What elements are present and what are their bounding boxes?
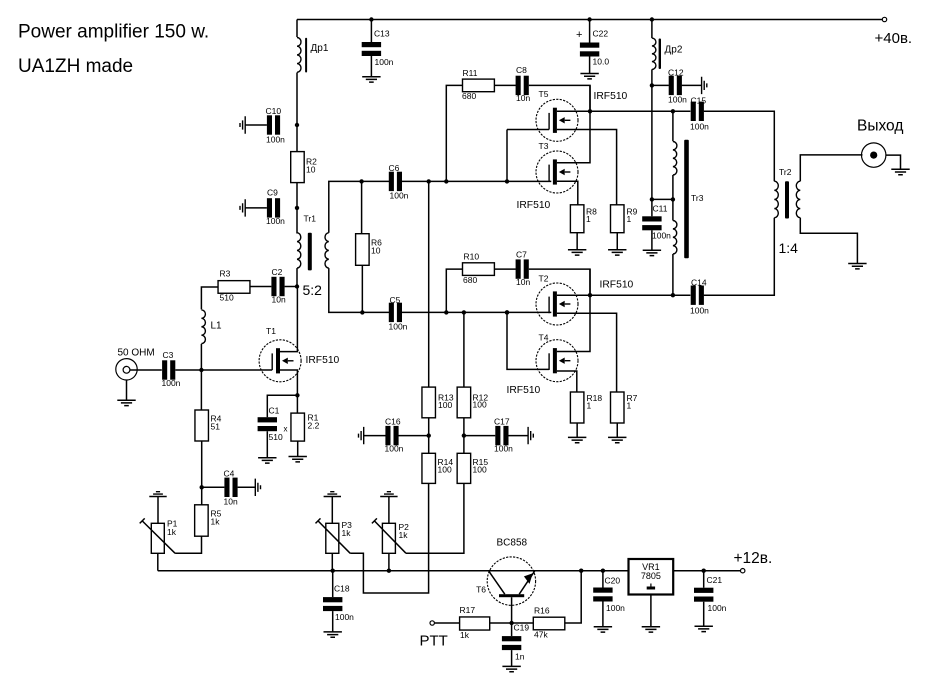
resistor R1: [296, 395, 298, 413]
svg-text:100n: 100n: [385, 443, 404, 453]
resistor R10: [463, 263, 495, 276]
node R13 top junction: [427, 179, 431, 183]
wire R17 to base node: [490, 622, 512, 624]
wire T4 drain lead: [557, 269, 590, 351]
node Tr3 top junction: [671, 109, 675, 113]
inductor Др1: [297, 38, 301, 73]
capacitor C13: [370, 20, 372, 43]
svg-text:IRF510: IRF510: [600, 280, 634, 291]
node C21 junction: [702, 569, 706, 573]
wire C19 to ground: [511, 650, 513, 666]
wire Tr3 winding bottom: [672, 254, 674, 295]
svg-text:R11: R11: [463, 68, 478, 78]
wire R2 to C9 node: [296, 183, 298, 208]
wire R13 to C16 node: [428, 418, 430, 454]
wire ground to P1: [157, 497, 159, 524]
wire left main vertical top (rail to Dr1): [296, 20, 298, 38]
svg-text:+40в.: +40в.: [875, 30, 913, 47]
wire T2 source to R7: [557, 313, 617, 392]
wire C15 to Tr2: [704, 111, 775, 181]
svg-text:R3: R3: [220, 269, 231, 279]
inductor L1: [201, 310, 205, 344]
ground at C17 (side): [528, 427, 533, 444]
resistor R17: [460, 617, 490, 630]
node R12 junction: [462, 310, 466, 314]
transformer Tr2 core: [785, 181, 789, 218]
transformer Tr2 primary winding: [774, 181, 778, 218]
node +40V rail terminal circle: [882, 17, 886, 21]
wire R12 to C17 node: [463, 418, 465, 454]
wire T5 gate riser: [506, 130, 508, 182]
svg-text:R16: R16: [534, 606, 550, 616]
capacitor C8: [494, 84, 516, 86]
resistor R2: [291, 152, 305, 183]
ground above P1: [149, 492, 166, 497]
ground at R8: [568, 250, 586, 255]
wire T2 drain lead: [557, 294, 590, 296]
node P2 bus junction: [387, 569, 391, 573]
ground at C9 (side): [240, 199, 245, 216]
node R10 feed junction: [444, 310, 448, 314]
node C18 junction: [331, 569, 335, 573]
capacitor C3: [162, 360, 167, 379]
svg-text:T5: T5: [539, 89, 549, 99]
inductor Др2: [652, 38, 656, 69]
node T4 gate junction: [505, 310, 509, 314]
wire R8 to ground: [576, 233, 578, 250]
wire C10 node to R2: [296, 125, 298, 152]
svg-text:10n: 10n: [516, 277, 530, 287]
regulator VR1: [629, 559, 674, 595]
wire C8 to drain node: [529, 85, 590, 111]
capacitor C10: [245, 124, 267, 126]
svg-text:C8: C8: [516, 65, 527, 75]
svg-text:C22: C22: [593, 29, 609, 39]
transistor T1: [259, 340, 301, 382]
wire R12 top to C5 line: [463, 312, 465, 387]
resistor R8: [570, 205, 584, 233]
svg-text:100n: 100n: [668, 94, 687, 104]
node T1 source junction: [295, 393, 299, 397]
svg-text:T6: T6: [476, 585, 486, 595]
wire PTT to R17: [435, 622, 460, 624]
svg-text:C5: C5: [390, 295, 401, 305]
svg-text:Др1: Др1: [311, 43, 329, 54]
node C17 junction: [462, 433, 466, 437]
svg-text:100n: 100n: [335, 612, 354, 622]
connector output: [862, 143, 886, 167]
node C22 junction: [587, 17, 591, 21]
node C9 junction: [295, 206, 299, 210]
wire input node to T1 gate: [201, 369, 272, 371]
transistor T5: [536, 99, 578, 141]
svg-text:100n: 100n: [606, 603, 625, 613]
wire input connector ground lead: [126, 380, 128, 400]
svg-text:C1: C1: [269, 406, 280, 416]
wire R1 to ground: [297, 441, 299, 456]
ground at R18: [568, 437, 586, 442]
wire bottom bias bus: [158, 570, 742, 572]
capacitor C11: [651, 199, 653, 216]
svg-text:R10: R10: [464, 252, 480, 262]
wire Tr2 secondary top to output: [800, 155, 862, 181]
ground at C4 (side): [255, 479, 260, 496]
wire C11 to ground: [651, 230, 653, 250]
wire +40V top rail: [297, 19, 884, 21]
ground at C18: [324, 632, 342, 637]
svg-text:Tr1: Tr1: [304, 213, 317, 223]
node T6 base junction: [509, 621, 513, 625]
resistor R16: [533, 617, 565, 630]
ground at C20: [594, 627, 612, 632]
svg-text:1k: 1k: [399, 530, 409, 540]
svg-text:C2: C2: [272, 267, 283, 277]
wire T4 source to R18: [557, 371, 577, 392]
resistor R14: [422, 453, 436, 483]
node Tr3 mid junction: [671, 197, 675, 201]
svg-text:10: 10: [306, 164, 316, 174]
transformer Tr1 primary winding: [297, 233, 301, 268]
node C11 left junction: [650, 197, 654, 201]
wire Dr2 to C11 node: [651, 69, 653, 199]
svg-text:C18: C18: [334, 583, 350, 593]
svg-text:100: 100: [473, 400, 487, 410]
transformer Tr3 winding upper: [673, 142, 677, 176]
ground at VR1: [642, 627, 660, 632]
node C10 junction: [295, 123, 299, 127]
node C16 junction: [427, 433, 431, 437]
wire L1 to input node: [200, 344, 202, 370]
svg-text:Power amplifier 150 w.: Power amplifier 150 w.: [18, 22, 209, 43]
svg-text:680: 680: [462, 91, 476, 101]
capacitor C1: [258, 417, 277, 422]
resistor R6: [361, 181, 363, 233]
svg-text:PTT: PTT: [420, 633, 448, 650]
svg-text:100n: 100n: [494, 443, 513, 453]
transformer Tr3 core: [684, 140, 689, 259]
wire ground to P2: [388, 497, 390, 524]
capacitor C14: [691, 286, 696, 305]
wire R13 top to C6 line: [428, 181, 430, 387]
wire C5 to T2 gate: [402, 311, 552, 313]
svg-text:IRF510: IRF510: [594, 91, 628, 102]
svg-text:100n: 100n: [390, 191, 409, 201]
svg-text:+12в.: +12в.: [734, 550, 773, 567]
svg-text:T4: T4: [539, 333, 549, 343]
node R6 top junction: [359, 179, 363, 183]
wire C1 to ground: [266, 431, 268, 458]
svg-text:10n: 10n: [272, 294, 286, 304]
wire C3 to input node: [175, 369, 201, 371]
capacitor C21: [703, 571, 705, 588]
resistor R12: [457, 387, 471, 418]
node C2 junction: [295, 284, 299, 288]
ground at Tr2 secondary: [848, 264, 866, 269]
svg-text:1:4: 1:4: [779, 240, 799, 256]
svg-text:C4: C4: [224, 469, 235, 479]
wire Dr1 to C10 node: [296, 73, 298, 126]
wire R4 to C4 node: [201, 441, 203, 487]
transistor T6: [487, 557, 535, 605]
svg-text:2.2: 2.2: [308, 420, 320, 430]
wire Tr3 winding middle: [672, 175, 674, 221]
capacitor C4: [202, 486, 225, 488]
svg-text:C9: C9: [267, 187, 278, 197]
svg-text:C12: C12: [668, 68, 684, 78]
capacitor C17: [464, 435, 495, 437]
transformer Tr1 secondary winding: [325, 233, 329, 268]
svg-text:C13: C13: [374, 29, 390, 39]
wire Tr1 secondary bottom to C5 line: [329, 268, 389, 312]
wire R5 to P1 wiper: [175, 536, 201, 553]
wire C11 node link: [652, 198, 673, 200]
wire P3 to bus: [331, 553, 333, 570]
svg-text:BC858: BC858: [497, 538, 528, 549]
resistor R11: [463, 79, 495, 92]
wire P2 wiper to R15: [406, 483, 464, 553]
transformer Tr1 core: [308, 233, 312, 271]
ground at input connector: [117, 400, 135, 405]
capacitor C18: [332, 571, 334, 597]
svg-text:C11: C11: [653, 204, 668, 214]
svg-text:L1: L1: [211, 320, 223, 331]
svg-text:100n: 100n: [162, 378, 181, 388]
node T5 gate riser junction: [505, 179, 509, 183]
ground at R1: [289, 457, 307, 462]
wire R3 to L1: [201, 287, 218, 309]
resistor R7: [611, 392, 625, 423]
wire R7 to ground: [616, 423, 618, 437]
capacitor C6: [389, 172, 394, 191]
wire lower drain line: [590, 294, 690, 296]
ground at C19: [502, 666, 520, 671]
svg-text:Др2: Др2: [665, 45, 683, 56]
svg-text:T1: T1: [266, 326, 276, 336]
svg-text:IRF510: IRF510: [507, 385, 541, 396]
svg-text:C15: C15: [691, 96, 707, 106]
wire C7 to lower drain node: [529, 269, 590, 295]
capacitor C2: [250, 286, 271, 288]
capacitor C19: [511, 623, 513, 636]
svg-text:IRF510: IRF510: [306, 355, 340, 366]
capacitor C5: [389, 303, 394, 322]
wire R16 to bus: [565, 571, 581, 623]
wire R6 to C5 line: [361, 265, 363, 312]
svg-text:1k: 1k: [211, 517, 221, 527]
wire source node to C1: [267, 395, 297, 417]
ground at C21: [695, 626, 713, 631]
wire R9 to ground: [616, 233, 618, 250]
svg-text:Выход: Выход: [857, 117, 903, 134]
svg-text:100n: 100n: [708, 603, 727, 613]
wire P2 to bus: [388, 553, 390, 570]
ground above P2: [380, 492, 397, 497]
wire T5 drain lead: [557, 110, 590, 112]
capacitor C16: [364, 435, 386, 437]
ground above P3: [324, 492, 341, 497]
svg-text:47k: 47k: [534, 629, 548, 639]
wire rail to Dr2: [651, 20, 653, 39]
svg-text:100n: 100n: [652, 230, 671, 240]
svg-text:R17: R17: [460, 605, 476, 615]
svg-text:100: 100: [438, 400, 452, 410]
capacitor C9: [245, 207, 267, 209]
node Tr3 bottom junction: [671, 293, 675, 297]
transistor T2: [536, 283, 578, 325]
wire ground to P3: [331, 497, 333, 524]
wire R18 to ground: [576, 423, 578, 437]
svg-text:100n: 100n: [690, 121, 709, 131]
svg-text:7805: 7805: [641, 571, 661, 581]
svg-text:50 OHM: 50 OHM: [118, 348, 155, 359]
node R16 bus junction: [579, 569, 583, 573]
svg-text:+: +: [576, 29, 582, 41]
wire C22 to ground: [589, 57, 591, 74]
wire P3 wiper to R14: [350, 483, 428, 593]
ground at C1: [258, 458, 276, 463]
wire base node to R16: [512, 622, 534, 624]
wire Tr1 secondary top to C6 line: [329, 181, 389, 232]
svg-text:IRF510: IRF510: [517, 200, 551, 211]
svg-text:Tr3: Tr3: [691, 193, 704, 203]
svg-text:C6: C6: [389, 163, 400, 173]
svg-text:100n: 100n: [266, 134, 285, 144]
node R6 bottom junction: [360, 310, 364, 314]
svg-text:C21: C21: [707, 575, 723, 585]
capacitor C22: [589, 20, 591, 43]
wire output connector to ground: [886, 155, 901, 169]
capacitor C20: [602, 571, 604, 588]
svg-text:5:2: 5:2: [303, 282, 323, 298]
wire C13 to ground: [370, 56, 372, 77]
wire T1 source lead: [276, 370, 297, 395]
wire C14 to Tr2: [704, 218, 775, 296]
svg-text:C10: C10: [266, 106, 282, 116]
wire Tr3 winding top: [672, 111, 674, 141]
wire T5 gate lead: [507, 129, 549, 131]
svg-text:C16: C16: [385, 416, 401, 426]
wire C21 to ground: [703, 602, 705, 627]
capacitor C7: [494, 268, 516, 270]
ground at C16 (side): [359, 427, 364, 444]
ground at C12 (side): [702, 77, 707, 94]
resistor R5: [201, 487, 203, 505]
node input junction: [199, 368, 203, 372]
capacitor C15: [691, 102, 696, 121]
resistor R13: [422, 387, 436, 418]
ground at R7: [608, 437, 626, 442]
svg-text:C3: C3: [163, 350, 174, 360]
wire input to C3: [130, 369, 162, 371]
wire upper drain line: [590, 110, 690, 112]
wire T3 drain lead: [557, 85, 590, 162]
svg-text:10: 10: [371, 246, 381, 256]
svg-text:1: 1: [627, 401, 632, 411]
transformer Tr3 winding lower: [673, 221, 677, 255]
svg-text:Tr2: Tr2: [779, 167, 792, 177]
resistor R15: [457, 453, 471, 483]
wire C9 node to Tr1: [296, 208, 298, 234]
svg-text:510: 510: [269, 432, 283, 442]
resistor R9: [611, 205, 625, 233]
wire T5 source to R9: [557, 130, 617, 205]
node T5 drain junction: [588, 109, 592, 113]
svg-text:1: 1: [586, 214, 591, 224]
svg-text:C14: C14: [691, 277, 707, 287]
wire VR1 to ground: [650, 595, 652, 627]
svg-text:x: x: [284, 425, 288, 434]
transistor T3: [536, 151, 578, 193]
wire Tr1 primary bottom to C2 node: [296, 268, 298, 286]
node R11 feed junction: [444, 179, 448, 183]
wire P1 to bottom bus: [157, 553, 159, 570]
resistor R18: [570, 392, 584, 423]
svg-text:1: 1: [627, 214, 632, 224]
ground at R9: [608, 250, 626, 255]
svg-text:100n: 100n: [375, 57, 394, 67]
node C20 junction: [601, 569, 605, 573]
svg-text:1n: 1n: [515, 652, 525, 662]
ground at C22: [580, 74, 598, 79]
node Dr2 rail junction: [650, 17, 654, 21]
svg-text:C17: C17: [494, 416, 510, 426]
svg-text:680: 680: [463, 275, 477, 285]
node PTT terminal circle: [430, 621, 434, 625]
svg-text:1k: 1k: [460, 630, 470, 640]
wire C20 to ground: [602, 602, 604, 627]
svg-text:100: 100: [438, 464, 452, 474]
wire T3 source to R8: [557, 181, 578, 205]
ground at C10 (side): [240, 116, 245, 133]
wire T4 gate riser: [507, 312, 549, 369]
svg-text:T2: T2: [539, 274, 549, 284]
wire C18 to ground: [332, 611, 334, 632]
svg-text:51: 51: [211, 421, 221, 431]
connector input 50 OHM: [116, 359, 137, 380]
svg-text:10n: 10n: [516, 93, 530, 103]
capacitor C12: [652, 84, 669, 86]
svg-text:UA1ZH made: UA1ZH made: [18, 56, 133, 77]
node C4 junction: [200, 485, 204, 489]
node T4 gate riser junction: [505, 310, 509, 314]
svg-text:100n: 100n: [266, 216, 285, 226]
resistor R3: [218, 281, 250, 294]
svg-text:100n: 100n: [389, 322, 408, 332]
svg-text:10n: 10n: [224, 497, 238, 507]
svg-text:C7: C7: [516, 250, 527, 260]
wire T6 base lead: [511, 597, 513, 623]
svg-text:1: 1: [587, 401, 592, 411]
svg-text:C19: C19: [514, 622, 530, 632]
wire R10 left to C5 line: [446, 269, 462, 312]
svg-text:C20: C20: [605, 575, 621, 585]
svg-text:100n: 100n: [690, 306, 709, 316]
svg-text:10.0: 10.0: [593, 57, 610, 67]
wire R11 left to C6 line: [446, 85, 462, 181]
node +12V terminal circle: [741, 569, 745, 573]
wire C6 to T3 gate: [402, 180, 552, 182]
svg-text:510: 510: [220, 292, 234, 302]
wire Tr2 secondary bottom to ground: [800, 218, 857, 264]
wire T1 drain lead: [276, 287, 297, 352]
potentiometer P3: [326, 523, 339, 553]
transistor T4: [536, 340, 578, 382]
node C13 junction: [369, 17, 373, 21]
transformer Tr2 secondary winding: [796, 181, 800, 218]
svg-text:100: 100: [473, 464, 487, 474]
node C12 junction: [650, 83, 654, 87]
ground at C13: [362, 77, 380, 82]
